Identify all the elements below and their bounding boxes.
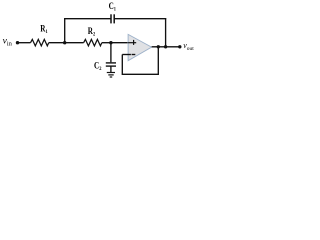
node vout terminal dot: [178, 45, 181, 48]
wire node A to R2: [65, 42, 84, 44]
capacitor C1: [110, 14, 112, 23]
capacitor C2: [106, 62, 116, 64]
node feedback tap dot: [157, 45, 160, 48]
node vin terminal dot: [16, 41, 19, 44]
wire R1 to node A: [49, 42, 65, 44]
wire top rail C1 to right: [114, 18, 166, 20]
wire node A up: [64, 18, 66, 43]
wire vin to R1: [18, 42, 31, 44]
wire right vertical down to output: [165, 18, 167, 47]
wire op-amp output: [152, 46, 180, 48]
wire top rail left to C1: [64, 18, 111, 20]
op-amp U1: [128, 34, 152, 60]
wire node B to op-amp plus input: [111, 42, 136, 44]
wire R2 to node B: [102, 42, 111, 44]
resistor R1: [31, 39, 49, 46]
op-amp minus sign: [132, 54, 136, 56]
wire feedback loop: [122, 47, 158, 75]
op-amp plus tick: [133, 40, 135, 45]
op-amp plus input stub inside: [128, 42, 136, 44]
node B junction dot: [109, 41, 112, 44]
node A junction dot: [63, 41, 66, 44]
resistor R2: [84, 39, 102, 46]
ground: [107, 72, 115, 74]
wire minus input: [122, 54, 131, 56]
wire node B down to C2: [110, 43, 112, 63]
node C1 rail tap dot: [164, 45, 167, 48]
wire C2 to ground: [110, 66, 112, 72]
